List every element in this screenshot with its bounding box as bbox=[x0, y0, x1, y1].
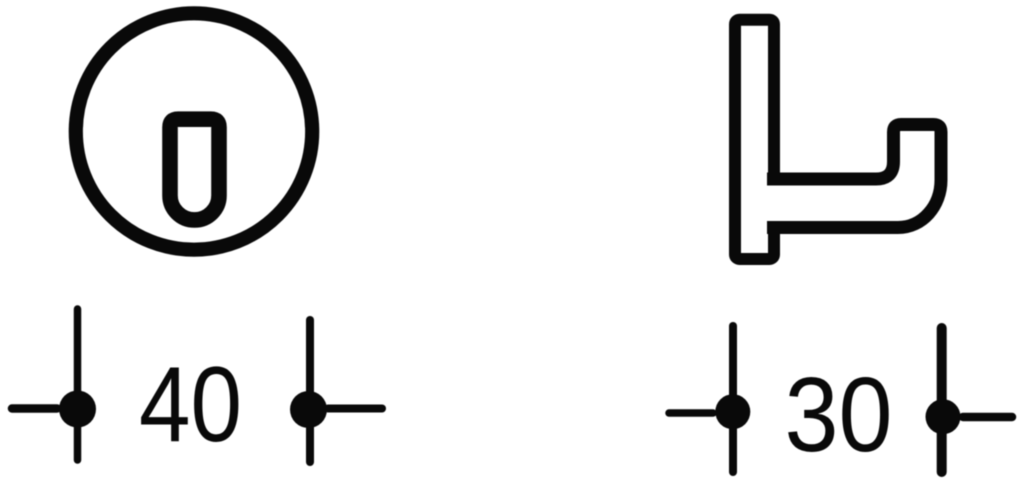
dim 40: left leader line bbox=[12, 404, 57, 413]
dim 30: right leader line bbox=[963, 413, 1012, 422]
svg-text:40: 40 bbox=[139, 344, 242, 464]
dim 30: left tick vertical line bbox=[729, 326, 737, 472]
dim 40: right tick vertical line bbox=[306, 320, 314, 462]
dim 30: left tick dot bbox=[715, 394, 750, 429]
front view: keyhole slot bbox=[170, 119, 219, 220]
dim 30: right tick vertical line bbox=[937, 328, 947, 472]
dim 40: right tick dot bbox=[290, 391, 327, 428]
dim 40: right leader line bbox=[328, 405, 382, 413]
dim 40: left tick vertical line bbox=[74, 309, 82, 460]
front view: rosette circle bbox=[76, 13, 312, 249]
dim 40: left tick dot bbox=[59, 391, 96, 428]
svg-text:30: 30 bbox=[785, 356, 893, 474]
side view: wall plate bbox=[735, 20, 774, 259]
side view: hook arm silhouette bbox=[767, 125, 941, 228]
dim 30: left leader line bbox=[669, 409, 713, 417]
dim 30: right tick dot bbox=[926, 399, 961, 434]
